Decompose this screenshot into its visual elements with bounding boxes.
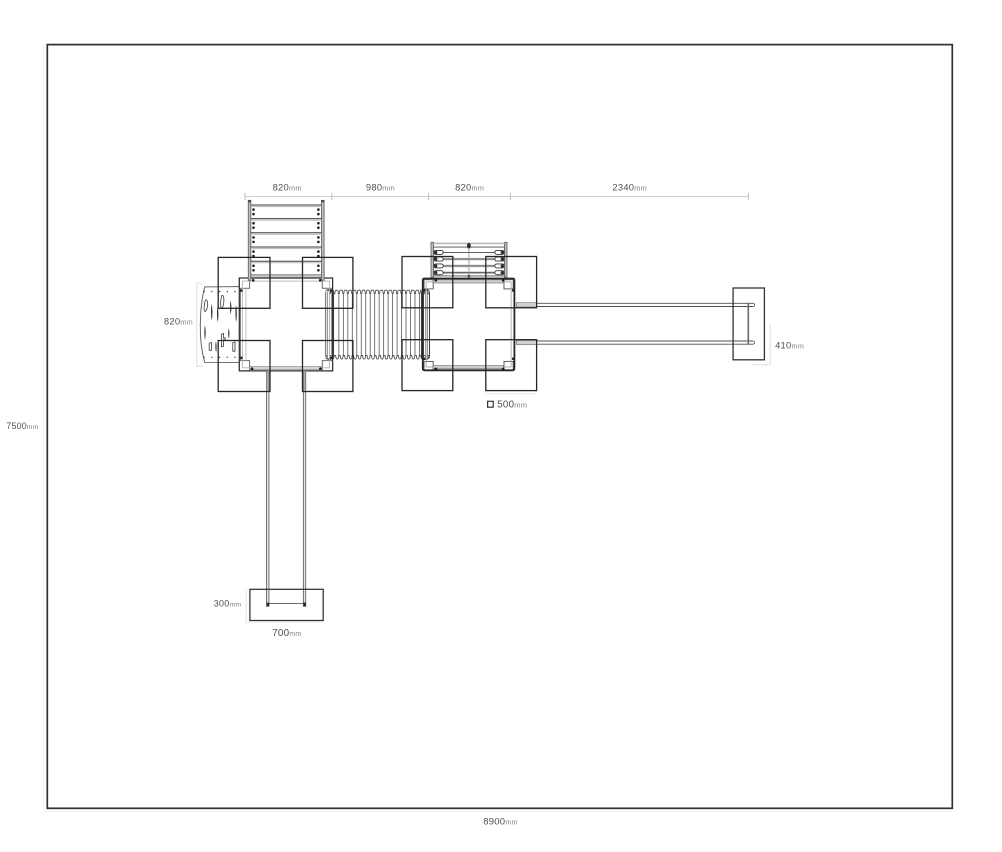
overhead climber center line <box>468 244 470 277</box>
slide rail upper gray segment <box>267 372 306 391</box>
right platform top deck gray band <box>433 280 504 283</box>
guide bracket right rect 410mm <box>753 325 771 365</box>
left platform inner offset line <box>242 281 329 368</box>
page shadow left <box>43 46 45 809</box>
page shadow bottom <box>45 810 953 812</box>
right platform inner offset line <box>426 282 511 367</box>
svg-text:500mm: 500mm <box>497 400 527 411</box>
tube bridge left end cap <box>326 290 334 360</box>
svg-text:410mm: 410mm <box>775 340 804 351</box>
top dimension chain line <box>245 196 748 198</box>
left tower footing BR 500x500 <box>303 341 353 392</box>
tube bridge top corrugated edge <box>326 290 429 294</box>
legend square symbol <box>488 401 494 407</box>
left platform side bolts <box>240 289 332 359</box>
climbing holds <box>204 295 237 352</box>
ladder slat bolts <box>252 208 320 271</box>
slide end ground rectangle 700x300 <box>250 589 323 620</box>
overhead climber left rail <box>431 242 434 277</box>
right tower footing TL 500x500 <box>402 257 453 308</box>
svg-text:820mm: 820mm <box>164 316 193 327</box>
overhead climber right rail <box>504 242 507 277</box>
dimension tick x=510.4 <box>509 193 511 200</box>
dimension tick x=748.4 <box>747 193 749 200</box>
dimension tick x=245.0 <box>244 193 246 200</box>
svg-text:820mm: 820mm <box>273 182 302 193</box>
climber rung 3 <box>434 265 505 268</box>
guide bracket left of climbing panel <box>197 283 203 366</box>
climber rung 1 <box>434 251 505 253</box>
svg-text:820mm: 820mm <box>455 182 484 193</box>
left tower footing TL 500x500 <box>218 257 270 308</box>
svg-text:980mm: 980mm <box>366 182 395 193</box>
lower beam rail <box>517 341 755 344</box>
ladder right rail <box>322 200 325 280</box>
left platform corner post TL <box>239 278 249 288</box>
overhead climber center top node <box>467 243 471 249</box>
ladder slat line 3 <box>251 232 322 234</box>
left platform corner post TR <box>322 278 332 288</box>
tube left cap ridge lines <box>328 292 332 358</box>
right tower footing BL 500x500 <box>402 340 453 391</box>
ladder left rail <box>248 200 251 280</box>
climber rung 4 <box>434 271 505 274</box>
ladder rail top caps <box>248 200 324 202</box>
slide end feet <box>267 603 306 606</box>
climbing wall panel outline <box>200 287 240 363</box>
tube bridge corrugation ridge lines <box>339 294 420 355</box>
upper beam sleeve <box>516 303 536 307</box>
left platform bottom deck gray band <box>250 367 322 370</box>
right tower footing TR 500x500 <box>486 257 537 308</box>
overhead climber center bottom node <box>467 274 470 277</box>
panel bolt dots top row <box>204 291 236 292</box>
panel bolt dots bottom row <box>204 357 236 358</box>
beam end rectangle 410mm <box>733 288 764 360</box>
dimension tick x=428.6 <box>428 193 430 200</box>
left platform top deck gray band <box>249 275 322 278</box>
right platform corner post TL <box>424 280 433 289</box>
left tower footing BL 500x500 <box>218 341 270 392</box>
left platform corner post BR <box>322 361 332 371</box>
right tower platform outer frame <box>423 279 515 371</box>
overhead climber top rails <box>434 242 505 244</box>
left tower platform outer frame <box>239 278 332 371</box>
right platform corner post TR <box>504 280 513 289</box>
guide bracket slide end <box>246 590 250 623</box>
right platform corner bolts <box>434 279 504 371</box>
ladder slat line 5 <box>251 260 322 262</box>
tube bridge bottom corrugated edge <box>326 356 429 360</box>
right platform side bolts <box>423 289 515 360</box>
slide right rail <box>303 371 305 606</box>
ladder slat line 2 <box>251 218 322 220</box>
svg-text:2340mm: 2340mm <box>612 182 647 193</box>
left tower footing TR 500x500 <box>303 257 353 308</box>
right tower footing BR 500x500 <box>486 340 537 391</box>
left platform side gray lines <box>245 289 247 361</box>
ladder slat line 1 <box>251 204 322 206</box>
lower beam sleeve <box>516 340 536 344</box>
ladder slat line 4 <box>251 246 322 248</box>
overhead climber bottom rail <box>434 275 505 277</box>
climber rung 2 <box>434 258 505 261</box>
guide line under right footings <box>485 393 537 395</box>
tube bridge right end cap <box>422 290 430 360</box>
left platform corner bolts <box>251 279 322 370</box>
right platform bottom deck gray band <box>433 366 504 369</box>
beam end cross bar <box>747 304 749 344</box>
tube right cap ridge lines <box>424 292 428 358</box>
svg-text:8900mm: 8900mm <box>483 816 517 827</box>
right platform corner post BR <box>504 361 513 370</box>
slide end connector bar <box>268 603 305 605</box>
right platform corner post BL <box>424 361 433 370</box>
upper beam rail <box>517 303 755 306</box>
left platform corner post BL <box>239 361 249 371</box>
dimension tick x=331.8 <box>331 193 333 200</box>
slide left rail <box>267 371 269 606</box>
